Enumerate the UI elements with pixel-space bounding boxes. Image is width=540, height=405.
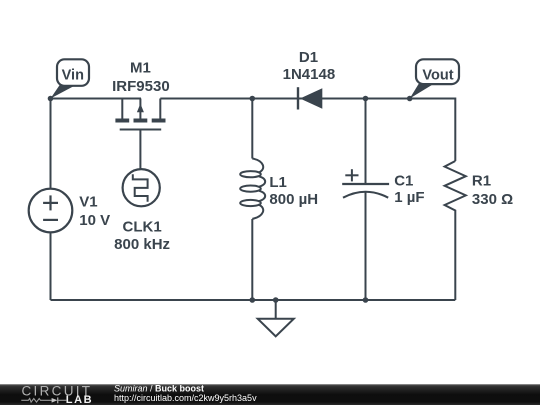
node flag Vout: [410, 59, 459, 98]
wire R1 bottom lead: [454, 214, 456, 300]
svg-text:IRF9530: IRF9530: [112, 78, 170, 95]
svg-text:L1: L1: [269, 174, 287, 191]
inductor L1 800 uH: [240, 159, 318, 219]
node Vout junction: [407, 96, 413, 102]
svg-text:http://circuitlab.com/c2kw9y5r: http://circuitlab.com/c2kw9y5rh3a5v: [114, 393, 257, 403]
node L1 bottom junction: [250, 297, 256, 303]
svg-text:R1: R1: [472, 173, 491, 190]
wire L1 top lead: [251, 99, 253, 159]
node ground junction: [273, 297, 279, 303]
node flag Vin: [51, 59, 90, 98]
wire M1 gate to CLK1: [139, 130, 141, 170]
CircuitLab logo: [21, 384, 93, 405]
svg-text:1 µF: 1 µF: [394, 189, 424, 206]
wire C1 bottom lead: [365, 192, 367, 300]
footer title text: [114, 384, 257, 404]
svg-text:Sumiran / Buck boost: Sumiran / Buck boost: [114, 384, 204, 394]
wire L1 bottom lead: [251, 219, 253, 300]
wire top from M1 drain to top-right corner and down to R1: [160, 99, 455, 162]
diode D1 1N4148: [283, 49, 336, 110]
wire top-left from Vin node to M1 source: [51, 98, 142, 100]
wire left rail V1 bottom lead: [50, 233, 52, 301]
svg-text:CLK1: CLK1: [123, 218, 162, 235]
svg-text:330 Ω: 330 Ω: [472, 191, 513, 208]
clock source CLK1 800 kHz: [114, 169, 170, 253]
svg-text:1N4148: 1N4148: [283, 66, 336, 83]
svg-text:D1: D1: [299, 49, 318, 66]
svg-text:Vin: Vin: [62, 67, 84, 83]
svg-text:LAB: LAB: [66, 394, 93, 405]
svg-text:C1: C1: [394, 173, 413, 190]
footer bar: [0, 384, 540, 405]
node L1 top junction: [250, 96, 256, 102]
wire bottom rail: [51, 299, 456, 301]
wire C1 top lead: [365, 99, 367, 185]
node Vin junction: [48, 96, 54, 102]
svg-text:800 µH: 800 µH: [269, 191, 318, 208]
ground: [258, 300, 294, 336]
node C1 bottom junction: [363, 297, 369, 303]
voltage source V1 10 V: [29, 189, 110, 233]
svg-text:10 V: 10 V: [79, 212, 110, 229]
node C1 top junction: [363, 96, 369, 102]
wire left rail V1 top lead: [50, 99, 52, 190]
svg-text:Vout: Vout: [422, 67, 453, 83]
resistor R1 330 Ohm: [445, 161, 514, 214]
svg-text:V1: V1: [79, 194, 97, 211]
svg-text:800 kHz: 800 kHz: [114, 236, 170, 253]
svg-text:M1: M1: [130, 60, 151, 77]
capacitor C1 1 uF (polarized): [342, 169, 424, 206]
transistor M1 (PMOS IRF9530): [112, 60, 170, 130]
